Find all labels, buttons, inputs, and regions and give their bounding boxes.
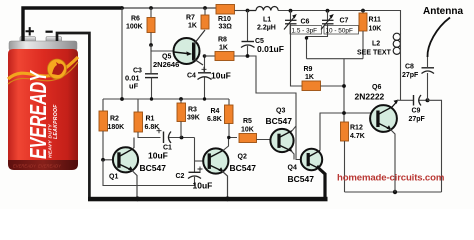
wire: R1 bottom node to C1 and Q1 collector [138,132,161,138]
svg-text:R9: R9 [304,66,313,73]
node: R7 top [203,6,207,10]
wire: L2 bottom to Q6 collector node [400,34,402,101]
svg-text:BC547: BC547 [266,116,293,126]
resistor R11 10K [361,9,365,13]
wire: Q5 B1 to C4 top node [204,56,206,72]
svg-text:R3: R3 [188,107,197,114]
svg-text:R8: R8 [218,37,227,44]
battery terminal - [46,37,62,44]
wire: battery positive to top rail (thick) [23,8,122,41]
mid supply wire y99 [103,98,229,100]
inductor L1 2.2uH [248,7,279,11]
node: R9 right / bias [342,84,346,88]
svg-text:6.8K: 6.8K [145,124,160,131]
svg-text:10 - 50pF: 10 - 50pF [326,27,353,34]
trimmer C7 10-50pF [307,9,359,59]
wire: R2 bottom to Q1 base [103,131,117,160]
node: C7 drop joint [305,36,308,39]
svg-text:BC547: BC547 [230,163,257,173]
wire: R6 bottom to node [150,33,152,46]
transistor Q6 2N2222 [355,84,399,132]
transistor Q1 BC547 [109,147,166,180]
svg-text:Q6: Q6 [372,84,381,91]
resistor R7 1K [204,8,206,15]
svg-text:1K: 1K [305,74,314,81]
svg-text:SEE TEXT: SEE TEXT [357,50,392,57]
svg-text:0.01uF: 0.01uF [257,44,284,54]
wire: vertical feed x122 from rail to mid supply [121,8,123,99]
svg-text:39K: 39K [187,115,200,122]
wire: Q1 collector up [133,138,135,150]
wire: Q3 emitter to Q4 base [291,151,294,160]
wire: rail after R10 [235,10,251,12]
capacitor C2 10uF [194,138,196,173]
ground rail (thick bottom) [88,197,328,202]
svg-text:4.7K: 4.7K [350,133,365,140]
wire: R6 top stub [150,8,152,17]
svg-text:homemade-circuits.com: homemade-circuits.com [337,172,444,183]
wire: R11 bottom to bias node [362,31,364,59]
svg-text:C9: C9 [412,108,421,115]
resistor R5 10K (horizontal) [239,134,257,143]
resistor R6 [147,18,155,33]
wire: Q1 emitter to ground [132,170,138,197]
transistor Q4 BC547 [288,149,323,184]
capacitor C3 0.01uF [145,73,158,75]
svg-text:10K: 10K [241,126,254,133]
battery BT1 9V Eveready [8,37,78,171]
resistor R1 6.8K [137,99,139,112]
resistor R9 1K [291,34,303,87]
wire: node down to C3 [150,45,152,73]
transistor Q3 BC547 [266,108,294,153]
svg-text:BC547: BC547 [288,174,315,184]
transistor Q5 2N2646 (UJT symbol, B2 to R7, B1 to C4 node) [153,30,205,69]
wire: R12 bottom to bottom wire [344,141,346,192]
node: C8/C9 junction [426,98,430,102]
trimmer C6 1.5-3pF [284,9,322,35]
transistor Q2 BC547 [203,148,256,173]
wire: rail L1 to L2 corner [278,11,401,35]
node: L1 left / C5 [246,9,250,13]
svg-text:Q3: Q3 [276,108,285,115]
svg-text:R6: R6 [131,16,140,23]
svg-text:LEAKPROOF: LEAKPROOF [53,104,59,139]
svg-text:R5: R5 [243,118,252,125]
capacitor C5 0.01uF [247,11,249,42]
resistor R12 4.7K [341,122,349,141]
capacitor C4 10uF (electrolytic) [198,72,211,74]
wire: bias drop to R9 right node [343,59,345,122]
svg-text:R1: R1 [146,116,155,123]
wire: R8 right to Q3 collector [234,56,307,160]
resistor R3 39K [180,99,182,103]
node: C5 bottom on R8 wire [246,54,250,58]
svg-text:R2: R2 [110,116,119,123]
inductor L2 (vertical) [393,33,400,40]
svg-text:uF: uF [129,82,139,91]
svg-text:C8: C8 [405,64,414,71]
wire: bias horizontal y58.7 [307,58,364,60]
bottom thin wire y192 [345,191,442,193]
wire: Q4 emitter thick to ground [319,169,325,199]
node: R6/C3/Q5 emitter [149,43,153,47]
wire: y113 to Q6 base [320,112,378,114]
battery gold swoosh [8,57,78,79]
wire: Q3 collector joins vertical [292,126,296,131]
antenna wire [427,18,450,58]
svg-text:BC547: BC547 [140,163,167,173]
wire: feedback down-left y185 [103,160,195,186]
battery plus sign [26,27,34,35]
svg-text:27pF: 27pF [402,72,419,79]
resistor R4 6.8K [228,99,230,105]
battery bottom band [8,160,78,170]
battery body [8,49,78,160]
svg-text:Antenna: Antenna [423,6,463,17]
capacitor C8 27pF [427,73,429,100]
capacitor C9 27pF [413,95,415,106]
svg-text:27pF: 27pF [409,116,426,123]
svg-text:EVEREADY EVEREADY: EVEREADY EVEREADY [13,164,62,169]
svg-text:C6: C6 [301,19,310,26]
wire: junction right and down to bottom [428,100,442,192]
svg-text:R10: R10 [218,16,231,23]
svg-text:10uF: 10uF [193,181,213,191]
capacitor C1 10uF [163,132,165,144]
svg-text:C2: C2 [176,173,185,180]
svg-text:33Ω: 33Ω [219,24,233,31]
svg-text:2N2646: 2N2646 [153,60,179,69]
svg-text:R4: R4 [211,108,220,115]
wire: Q2 collector up to R4/R5 node [223,138,229,151]
resistor R8 1K (horizontal) [215,52,234,61]
wire: node to Q5 emitter [151,45,174,51]
node: rail junction x122 [120,6,124,10]
svg-text:R7: R7 [186,15,195,22]
svg-text:R11: R11 [369,17,382,24]
wire: Q6 emitter down [390,129,395,192]
wire: Q4 collector up to y113 [319,113,321,151]
wire: Q2 emitter to ground [222,171,228,197]
svg-text:L2: L2 [372,41,380,48]
svg-text:Q4: Q4 [288,165,297,172]
svg-text:L1: L1 [263,17,271,24]
resistor R2 180K [102,99,104,111]
battery top cap [9,41,77,51]
battery minus sign [46,31,53,33]
node: R6 top [149,6,153,10]
svg-text:10K: 10K [369,26,382,33]
svg-text:Q2: Q2 [238,154,247,161]
svg-text:C7: C7 [340,18,349,25]
svg-text:2N2222: 2N2222 [355,92,385,102]
wire: top rail thin segment [121,7,216,9]
resistor R10 33ohm (in rail) [216,5,235,15]
svg-text:C4: C4 [187,73,196,80]
battery cat logo [48,59,67,79]
svg-text:180K: 180K [108,124,125,131]
battery terminal + [20,37,36,44]
wire: battery negative down left side to ground rail [57,33,89,201]
svg-text:1.5 - 3pF: 1.5 - 3pF [292,27,318,34]
svg-text:10uF: 10uF [148,151,168,161]
svg-text:6.8K: 6.8K [207,116,222,123]
svg-text:R12: R12 [350,125,363,132]
svg-text:100K: 100K [126,24,143,31]
svg-text:Q1: Q1 [109,174,118,181]
svg-text:10uF: 10uF [211,71,231,81]
svg-text:2.2µH: 2.2µH [257,25,276,32]
wire: collector node to C9 [397,99,413,101]
svg-text:1K: 1K [219,45,228,52]
wire: R8 left lead [204,55,215,57]
wire: Q2 base stub [195,160,209,162]
svg-text:1K: 1K [188,23,197,30]
